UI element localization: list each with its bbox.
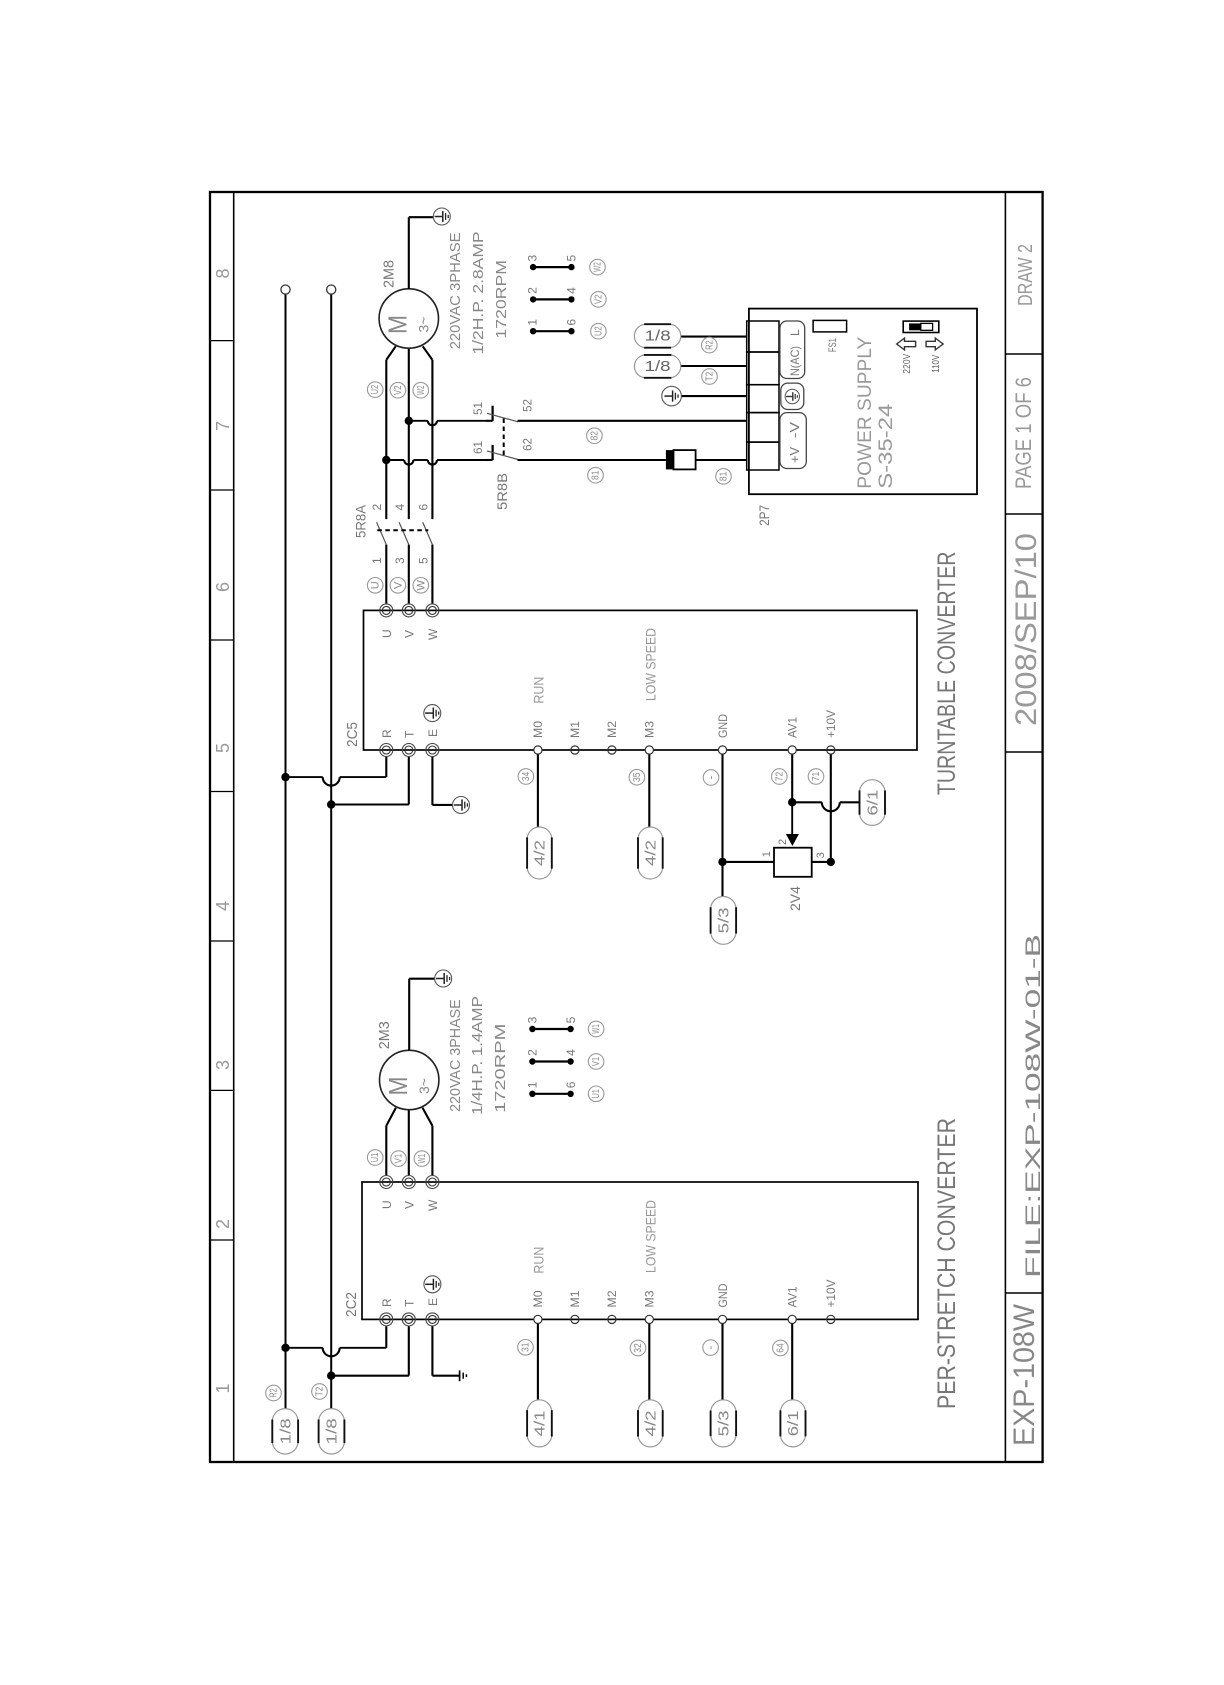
svg-text:V1: V1 bbox=[591, 1056, 602, 1066]
svg-text:7: 7 bbox=[213, 421, 233, 431]
terminal 2C2 AV1 bbox=[788, 1315, 796, 1323]
svg-text:LOW SPEED: LOW SPEED bbox=[642, 1200, 658, 1273]
label 64 circled bbox=[773, 1340, 789, 1356]
terminal 2C2 E bbox=[426, 1313, 439, 1326]
contact 5R8B tick 51 bbox=[486, 420, 493, 422]
label T2 circled PS bbox=[702, 369, 718, 385]
svg-text:-: - bbox=[705, 1345, 717, 1349]
svg-text:M0: M0 bbox=[531, 721, 545, 738]
ref bubble 5/3 right bbox=[711, 897, 737, 910]
svg-text:2C5: 2C5 bbox=[344, 722, 361, 747]
link dashed 5R8A bbox=[377, 529, 428, 531]
link 2-4 2M8 bbox=[533, 298, 571, 300]
zone divider 6 bbox=[210, 489, 234, 491]
wire 2C2 R branch bbox=[286, 1347, 323, 1349]
svg-text:S-35-24: S-35-24 bbox=[876, 403, 897, 489]
bus T2 wire bbox=[330, 294, 332, 1409]
wire U2 lead bbox=[385, 360, 387, 519]
terminal 2C2 U bbox=[380, 1176, 393, 1189]
terminal 2C5 V bbox=[402, 604, 415, 617]
svg-text:M3: M3 bbox=[642, 1290, 656, 1307]
wire AV1 to 6/1 bbox=[792, 801, 822, 803]
svg-text:EXP-108W: EXP-108W bbox=[1008, 1303, 1041, 1446]
svg-text:3~: 3~ bbox=[416, 317, 432, 333]
svg-text:52: 52 bbox=[521, 399, 535, 412]
svg-text:TURNTABLE CONVERTER: TURNTABLE CONVERTER bbox=[933, 552, 961, 796]
svg-text:64: 64 bbox=[775, 1343, 786, 1353]
svg-text:-V: -V bbox=[787, 422, 802, 438]
node junction bus1/2C5-R bbox=[281, 773, 289, 781]
ref bubble 5/3 left bbox=[711, 1400, 737, 1413]
wire 2M3 lead V bbox=[408, 1110, 410, 1175]
wire V2 lead bbox=[408, 348, 410, 519]
svg-text:220VAC 3PHASE: 220VAC 3PHASE bbox=[447, 999, 464, 1112]
svg-text:4/1: 4/1 bbox=[532, 1410, 549, 1436]
zone divider 1 bbox=[210, 1239, 234, 1241]
svg-text:5/3: 5/3 bbox=[715, 907, 732, 933]
title divider 4 bbox=[1005, 353, 1042, 355]
svg-text:W2: W2 bbox=[416, 385, 427, 395]
ground 2C2 E bbox=[459, 1370, 461, 1381]
svg-text:2008/SEP/10: 2008/SEP/10 bbox=[1010, 533, 1043, 726]
svg-text:AV1: AV1 bbox=[786, 1286, 800, 1307]
svg-text:1: 1 bbox=[526, 319, 540, 326]
svg-text:2M8: 2M8 bbox=[381, 260, 398, 288]
svg-text:4/2: 4/2 bbox=[532, 840, 549, 866]
svg-text:6: 6 bbox=[565, 319, 579, 326]
wire 2C5 +10V bbox=[830, 754, 832, 862]
wire 2C2 T branch bbox=[331, 1375, 409, 1377]
svg-text:M0: M0 bbox=[531, 1290, 545, 1307]
svg-text:72: 72 bbox=[774, 771, 785, 781]
wire 2C5 GND bbox=[721, 754, 723, 896]
wire W2 lead bbox=[431, 360, 433, 519]
svg-text:W: W bbox=[426, 1199, 440, 1211]
label V1 circled bbox=[391, 1151, 407, 1167]
svg-text:1720RPM: 1720RPM bbox=[493, 260, 510, 339]
potentiometer 2V4 wiper arrow bbox=[791, 802, 793, 834]
ref bubble 6/1 right bbox=[860, 780, 886, 793]
ref bubble 1/8 T2 bbox=[319, 1409, 345, 1422]
wire 52 to PS bbox=[518, 420, 747, 422]
svg-text:2P7: 2P7 bbox=[756, 505, 772, 526]
node junction AV1/wiper bbox=[788, 798, 796, 806]
border frame bbox=[210, 192, 1043, 1462]
svg-text:8: 8 bbox=[213, 268, 233, 278]
contact 5R8A pole3 bbox=[423, 522, 433, 544]
svg-text:M2: M2 bbox=[605, 721, 619, 738]
svg-text:V2: V2 bbox=[593, 294, 604, 304]
ref bubble 6/1 left bbox=[780, 1400, 805, 1413]
svg-text:M3: M3 bbox=[642, 721, 656, 738]
arrow 220V bbox=[897, 338, 916, 350]
svg-text:W: W bbox=[415, 579, 427, 590]
label R2 circled PS bbox=[702, 337, 718, 353]
label U circled bbox=[367, 578, 383, 594]
svg-text:V: V bbox=[403, 630, 417, 638]
svg-text:W1: W1 bbox=[591, 1024, 602, 1034]
label 81 circled a bbox=[588, 467, 604, 483]
svg-text:1/2H.P. 2.8AMP: 1/2H.P. 2.8AMP bbox=[470, 231, 487, 354]
title divider 2 bbox=[1005, 751, 1042, 753]
ref bubble 4/2 M3 bbox=[638, 827, 663, 839]
label W2 circled wire bbox=[413, 382, 429, 398]
svg-text:POWER SUPPLY: POWER SUPPLY bbox=[855, 336, 876, 488]
svg-text:M1: M1 bbox=[568, 721, 582, 738]
zone divider 3 bbox=[210, 940, 234, 942]
svg-text:3: 3 bbox=[213, 1060, 233, 1070]
ground circled PS bbox=[662, 386, 682, 406]
svg-text:3: 3 bbox=[815, 852, 827, 858]
terminal 2C5 T bbox=[402, 744, 415, 757]
contact 5R8A pole2 bbox=[399, 522, 409, 544]
label W2 circled link bbox=[590, 259, 606, 275]
svg-text:4: 4 bbox=[213, 901, 233, 911]
label 71 circled bbox=[808, 769, 824, 785]
svg-text:32: 32 bbox=[633, 1343, 644, 1353]
svg-text:4/2: 4/2 bbox=[643, 1410, 660, 1436]
svg-text:U: U bbox=[370, 581, 382, 589]
terminal 2C5 M3 bbox=[645, 746, 653, 754]
svg-text:2C2: 2C2 bbox=[343, 1292, 360, 1317]
label V2 circled wire bbox=[390, 382, 406, 398]
terminal 2C2 GND bbox=[718, 1315, 726, 1323]
svg-text:220VAC 3PHASE: 220VAC 3PHASE bbox=[447, 233, 464, 350]
wire 2M3 lead W bbox=[431, 1126, 433, 1175]
switch SW1 knob bbox=[909, 323, 921, 330]
svg-text:1/4H.P. 1.4AMP: 1/4H.P. 1.4AMP bbox=[469, 996, 486, 1115]
bus R2 wire bbox=[285, 294, 287, 1409]
terminal 2C2 +10V bbox=[827, 1315, 835, 1323]
svg-text:N(AC): N(AC) bbox=[788, 346, 802, 376]
svg-text:T: T bbox=[403, 1299, 417, 1307]
ground circled 2M8 bbox=[433, 208, 450, 225]
terminal 2C2 W bbox=[426, 1176, 439, 1189]
svg-text:2: 2 bbox=[213, 1219, 233, 1229]
svg-text:DRAW 2: DRAW 2 bbox=[1015, 244, 1037, 306]
svg-text:82: 82 bbox=[589, 431, 600, 441]
ref bubble 1/8 R2 bbox=[272, 1409, 298, 1422]
svg-text:+V: +V bbox=[787, 447, 802, 463]
terminal 2C5 GND bbox=[718, 746, 726, 754]
wire 51 branch bbox=[409, 420, 428, 422]
zone divider 7 bbox=[210, 340, 234, 342]
wire 2C5 M0 bbox=[537, 754, 539, 827]
svg-text:110V: 110V bbox=[931, 354, 942, 372]
svg-text:+10V: +10V bbox=[824, 710, 838, 738]
svg-text:T2: T2 bbox=[315, 1386, 326, 1396]
svg-text:5: 5 bbox=[564, 1016, 578, 1023]
svg-text:61: 61 bbox=[471, 441, 485, 454]
node junction GND/pot1 bbox=[718, 858, 726, 866]
svg-text:2: 2 bbox=[526, 287, 540, 294]
bus R2 end terminal bbox=[281, 285, 290, 294]
link 1-6 2M8 bbox=[533, 330, 571, 332]
svg-text:U2: U2 bbox=[370, 385, 381, 395]
svg-text:1: 1 bbox=[526, 1081, 540, 1088]
title divider 1 bbox=[1005, 1292, 1042, 1294]
label T2 circled bbox=[312, 1384, 328, 1400]
terminal 2C2 T bbox=[402, 1313, 415, 1326]
wire R2 bubble to PS bbox=[681, 336, 747, 338]
svg-text:2M3: 2M3 bbox=[376, 1021, 393, 1049]
svg-text:6: 6 bbox=[564, 1081, 578, 1088]
svg-text:51: 51 bbox=[471, 402, 485, 415]
wire PS earth bbox=[681, 395, 746, 397]
wire 2C2 M0 bbox=[537, 1324, 539, 1400]
svg-text:220V: 220V bbox=[902, 353, 913, 373]
label W1 circled link bbox=[588, 1021, 604, 1037]
wire 2M8 ground bbox=[408, 217, 410, 289]
svg-text:3: 3 bbox=[526, 255, 540, 262]
motor 2M3 bbox=[380, 1050, 439, 1109]
ground circled 2C2-E bbox=[424, 1276, 441, 1293]
svg-text:GND: GND bbox=[716, 1283, 730, 1307]
svg-text:62: 62 bbox=[521, 438, 535, 451]
svg-text:6/1: 6/1 bbox=[785, 1410, 802, 1436]
PS terminal sq earth bbox=[747, 385, 779, 413]
svg-text:5: 5 bbox=[417, 557, 431, 564]
svg-text:LOW SPEED: LOW SPEED bbox=[642, 628, 658, 701]
svg-text:RUN: RUN bbox=[530, 1247, 546, 1274]
label minus circled 2C5 bbox=[703, 770, 719, 786]
ref bubble 1/8 PS-N bbox=[634, 355, 645, 378]
svg-text:R: R bbox=[380, 1298, 394, 1307]
svg-text:PAGE 1 OF 6: PAGE 1 OF 6 bbox=[1011, 377, 1036, 489]
svg-text:W: W bbox=[426, 628, 440, 640]
terminal 2C5 +10V bbox=[827, 746, 835, 754]
wire 2C5 E to ground bbox=[431, 757, 433, 805]
terminal 2C5 U bbox=[380, 604, 393, 617]
wire 2C5 T branch bbox=[331, 803, 409, 805]
svg-text:1: 1 bbox=[213, 1383, 233, 1393]
wire 62 to diode bbox=[518, 459, 666, 461]
label 72 circled bbox=[772, 769, 788, 785]
contact 5R8B blade 61-62 bbox=[487, 451, 518, 460]
wire T2 bubble to PS bbox=[681, 365, 747, 367]
contact 5R8B tick 61 bbox=[486, 459, 493, 461]
node junction bus2/2C2-T bbox=[327, 1372, 335, 1380]
power supply box bbox=[749, 309, 977, 495]
svg-text:E: E bbox=[426, 1298, 440, 1306]
svg-text:2: 2 bbox=[370, 504, 384, 511]
svg-text:U1: U1 bbox=[591, 1089, 602, 1099]
svg-text:V: V bbox=[403, 1201, 417, 1209]
wire pot pin3 bbox=[812, 861, 831, 863]
PS label box earth bbox=[781, 383, 804, 409]
wire 2C2 M3 bbox=[648, 1324, 650, 1400]
svg-text:V2: V2 bbox=[393, 385, 404, 395]
label V1 circled link bbox=[588, 1054, 604, 1070]
terminal 2C2 M2 bbox=[608, 1315, 616, 1323]
wire pot pin1 bbox=[723, 861, 775, 863]
wire 2C5 U out bbox=[385, 545, 387, 604]
svg-text:W2: W2 bbox=[593, 262, 604, 272]
label 35 circled bbox=[629, 769, 645, 785]
terminal 2C2 M3 bbox=[645, 1315, 653, 1323]
svg-text:E: E bbox=[426, 729, 440, 737]
svg-text:V: V bbox=[392, 581, 404, 589]
wire 2C5 V out bbox=[408, 545, 410, 604]
link 1-6 2M3 bbox=[532, 1093, 570, 1095]
svg-text:4: 4 bbox=[565, 287, 579, 294]
terminal 2C5 W bbox=[426, 604, 439, 617]
svg-text:31: 31 bbox=[521, 1342, 532, 1352]
PS terminal sq L bbox=[747, 321, 779, 352]
svg-text:T2: T2 bbox=[705, 371, 716, 381]
converter 2C2 box bbox=[362, 1182, 918, 1319]
svg-text:3: 3 bbox=[526, 1016, 540, 1023]
svg-text:3~: 3~ bbox=[416, 1078, 432, 1094]
svg-text:6: 6 bbox=[417, 504, 431, 511]
label U2 circled wire bbox=[367, 382, 383, 398]
bus T2 end terminal bbox=[327, 285, 336, 294]
label 82 circled bbox=[587, 428, 603, 444]
switch SW1 body bbox=[903, 321, 939, 332]
svg-text:1/8: 1/8 bbox=[277, 1418, 294, 1444]
svg-text:5/3: 5/3 bbox=[715, 1410, 732, 1436]
svg-text:2V4: 2V4 bbox=[787, 886, 803, 911]
node junction bus2/2C5-T bbox=[327, 800, 335, 808]
svg-text:71: 71 bbox=[811, 771, 822, 781]
wire 2M3 ground bbox=[408, 979, 410, 1051]
ref bubble 4/1 bbox=[527, 1400, 552, 1412]
label U1 circled bbox=[367, 1150, 383, 1166]
terminal 2C2 R bbox=[380, 1313, 393, 1326]
PS terminal sq N bbox=[747, 352, 779, 385]
svg-text:W1: W1 bbox=[417, 1154, 428, 1164]
label W circled bbox=[413, 578, 429, 594]
PS terminal sq +V bbox=[747, 442, 779, 470]
title strip line bbox=[1004, 192, 1006, 1462]
link 2-4 2M3 bbox=[532, 1060, 570, 1062]
label U2 circled link bbox=[591, 323, 607, 339]
svg-text:+10V: +10V bbox=[824, 1280, 838, 1308]
title divider 3 bbox=[1005, 513, 1042, 515]
PS terminal sq -V bbox=[747, 413, 779, 443]
ground circled 2C5 earth bbox=[453, 797, 470, 814]
svg-text:R2: R2 bbox=[269, 1388, 280, 1398]
svg-text:1/8: 1/8 bbox=[645, 358, 671, 375]
ref bubble 1/8 PS-L bbox=[634, 324, 646, 348]
svg-text:4/2: 4/2 bbox=[643, 840, 660, 866]
PS label box LN bbox=[780, 321, 805, 379]
wire 2C5 W out bbox=[431, 545, 433, 604]
svg-text:2: 2 bbox=[526, 1049, 540, 1056]
wire 2C5 M3 bbox=[648, 754, 650, 827]
contact 5R8B blade 51-52 bbox=[487, 413, 518, 422]
label minus circled bbox=[703, 1340, 719, 1356]
svg-text:M1: M1 bbox=[568, 1290, 582, 1307]
svg-text:5: 5 bbox=[565, 255, 579, 262]
potentiometer 2V4 body bbox=[774, 848, 812, 877]
svg-text:R: R bbox=[380, 729, 394, 738]
motor 2M8 bbox=[379, 289, 438, 348]
terminal 2C5 R bbox=[380, 744, 393, 757]
converter 2C5 box bbox=[364, 610, 918, 750]
svg-text:U1: U1 bbox=[370, 1152, 381, 1162]
svg-text:GND: GND bbox=[716, 714, 730, 738]
zone divider 4 bbox=[210, 791, 234, 793]
terminal 2C2 M1 bbox=[571, 1315, 579, 1323]
ref bubble 4/2 left bbox=[638, 1400, 663, 1412]
contact 5R8A pole1 bbox=[377, 522, 387, 544]
wire 2C2 GND bbox=[721, 1324, 723, 1400]
label U1 circled link bbox=[588, 1086, 604, 1102]
diode D1 bbox=[666, 450, 674, 469]
svg-text:4: 4 bbox=[393, 504, 407, 511]
terminal 2C5 M1 bbox=[571, 746, 579, 754]
wire 2C2 E to ground bbox=[431, 1326, 433, 1375]
svg-text:2: 2 bbox=[777, 839, 789, 845]
svg-text:5: 5 bbox=[213, 743, 233, 753]
terminal 2C5 AV1 bbox=[788, 746, 796, 754]
svg-text:AV1: AV1 bbox=[786, 717, 800, 738]
PS label box V bbox=[780, 413, 806, 469]
svg-text:RUN: RUN bbox=[530, 677, 546, 704]
svg-text:U2: U2 bbox=[593, 326, 604, 336]
ground circled 2C5-E bbox=[424, 705, 441, 722]
svg-text:V1: V1 bbox=[394, 1154, 405, 1164]
svg-text:L: L bbox=[788, 329, 802, 336]
label V circled bbox=[390, 578, 406, 594]
svg-text:FS1: FS1 bbox=[827, 338, 839, 352]
svg-text:3: 3 bbox=[393, 557, 407, 564]
svg-text:U: U bbox=[380, 1200, 394, 1209]
zone divider 5 bbox=[210, 639, 234, 641]
svg-text:M: M bbox=[383, 315, 413, 334]
label W1 circled bbox=[414, 1151, 430, 1167]
wire 2M3 lead U bbox=[385, 1126, 387, 1175]
link dashed 5R8B bbox=[503, 417, 505, 455]
svg-text:5R8A: 5R8A bbox=[353, 504, 369, 538]
svg-text:1/8: 1/8 bbox=[324, 1418, 341, 1444]
svg-text:81: 81 bbox=[591, 470, 602, 480]
svg-text:1: 1 bbox=[761, 851, 773, 857]
ground circled 2M3 bbox=[435, 970, 452, 987]
label 32 circled bbox=[630, 1340, 646, 1356]
svg-text:FILE:EXP-108W-01-B: FILE:EXP-108W-01-B bbox=[1022, 934, 1045, 1278]
zone strip line bbox=[233, 192, 235, 1462]
svg-text:1: 1 bbox=[370, 557, 384, 564]
svg-text:M2: M2 bbox=[605, 1290, 619, 1307]
svg-text:35: 35 bbox=[632, 772, 643, 782]
terminal 2C5 M2 bbox=[608, 746, 616, 754]
link 3-5 2M8 bbox=[533, 266, 571, 268]
svg-text:81: 81 bbox=[719, 471, 730, 481]
label 34 circled bbox=[518, 769, 534, 785]
svg-text:6/1: 6/1 bbox=[864, 790, 881, 816]
svg-text:1/8: 1/8 bbox=[645, 328, 671, 345]
terminal 2C2 V bbox=[402, 1176, 415, 1189]
label 81 circled b bbox=[716, 469, 732, 485]
wire 2C2 AV1 bbox=[791, 1324, 793, 1400]
wire 2C5 AV1 bbox=[791, 754, 793, 802]
svg-text:-: - bbox=[706, 775, 718, 779]
svg-text:5R8B: 5R8B bbox=[494, 473, 510, 510]
terminal 2C2 M0 bbox=[534, 1315, 542, 1323]
node junction U2/61 bbox=[382, 456, 390, 464]
terminal 2C5 E bbox=[426, 744, 439, 757]
fuse FS1 bbox=[813, 320, 847, 332]
svg-text:M: M bbox=[383, 1077, 413, 1096]
zone divider 2 bbox=[210, 1089, 234, 1091]
svg-text:T: T bbox=[403, 730, 417, 738]
terminal 2C5 M0 bbox=[534, 746, 542, 754]
svg-text:1720RPM: 1720RPM bbox=[492, 1024, 509, 1113]
wire 61 branch bbox=[386, 459, 404, 461]
wire diode to PS bbox=[696, 459, 747, 461]
